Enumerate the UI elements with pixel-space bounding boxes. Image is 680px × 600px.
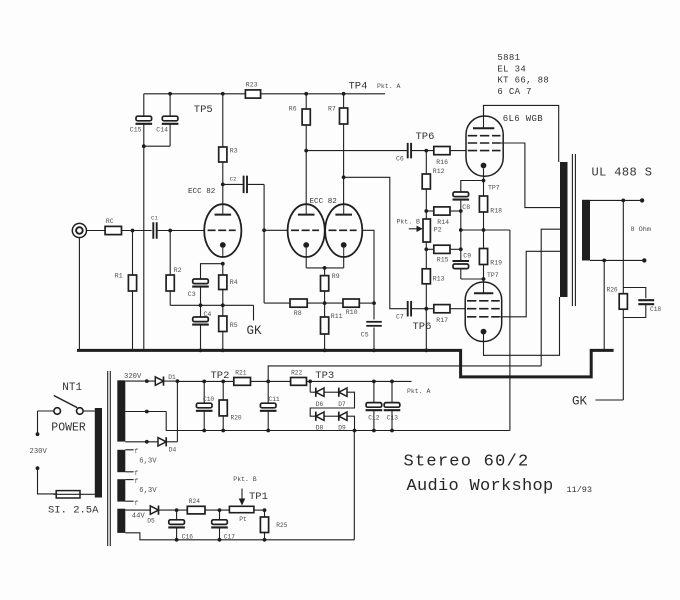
wire bias rail riser xyxy=(353,431,355,540)
resistor R10 xyxy=(343,299,359,307)
svg-text:R25: R25 xyxy=(276,522,287,529)
op-amp V1 triode ECC 82 xyxy=(204,204,241,257)
wire upper screen tap xyxy=(501,143,561,208)
svg-text:TP7: TP7 xyxy=(488,184,500,191)
TP1 wiper arrow xyxy=(241,489,243,502)
op-amp V3 triode ECC 82 xyxy=(325,204,362,257)
node R6 top xyxy=(304,92,308,96)
svg-text:R4: R4 xyxy=(230,279,238,286)
svg-text:EL 34: EL 34 xyxy=(497,64,526,74)
wire GK stub xyxy=(253,305,255,320)
svg-text:C13: C13 xyxy=(387,414,398,421)
svg-text:GK: GK xyxy=(247,324,263,338)
resistor R26 xyxy=(619,294,627,310)
resistor R17 xyxy=(434,305,450,313)
wire mains left xyxy=(38,410,54,412)
capacitor C5 xyxy=(373,303,375,319)
svg-text:GK: GK xyxy=(572,395,588,409)
svg-text:D6: D6 xyxy=(316,401,324,408)
node C2 junction xyxy=(221,183,225,187)
wire phase splitter row xyxy=(264,302,290,304)
transistor U2 output tube lower 6L6 xyxy=(465,282,502,342)
wire upper anode to primary top xyxy=(484,105,559,162)
potentiometer P2 xyxy=(425,211,427,219)
wire jack to RC xyxy=(87,230,106,232)
transformer core xyxy=(571,154,573,306)
svg-text:5881: 5881 xyxy=(497,53,520,63)
wire switch to primary xyxy=(83,410,95,412)
P2 wiper arrow xyxy=(409,228,419,230)
transformer NT1 heater winding 1 xyxy=(117,450,125,472)
capacitor C13 xyxy=(390,380,394,384)
resistor R15 xyxy=(426,248,434,250)
svg-text:TP4: TP4 xyxy=(349,80,368,92)
transformer UL 488 S primary xyxy=(560,162,568,297)
svg-text:R16: R16 xyxy=(436,159,448,166)
wire secondary bottom xyxy=(590,259,644,261)
node R1 tap xyxy=(131,229,135,233)
node V2 grid tap xyxy=(262,228,266,232)
svg-text:R13: R13 xyxy=(433,275,445,282)
node R3 top xyxy=(221,92,225,96)
svg-text:R21: R21 xyxy=(235,369,246,376)
svg-text:C8: C8 xyxy=(462,204,470,211)
resistor R6 xyxy=(305,94,307,109)
svg-text:Pkt. A: Pkt. A xyxy=(407,388,431,395)
svg-text:C5: C5 xyxy=(361,332,369,339)
svg-text:R5: R5 xyxy=(230,322,238,329)
svg-text:R8: R8 xyxy=(294,310,302,317)
resistor R19 xyxy=(483,230,485,249)
transformer secondary xyxy=(582,200,590,261)
svg-text:230V: 230V xyxy=(30,448,48,456)
resistor R3 xyxy=(222,94,224,147)
wire V3 grid from R10/C5 node xyxy=(362,230,374,303)
resistor R14 xyxy=(426,210,434,212)
svg-text:C4: C4 xyxy=(204,311,212,318)
wire lower anode to primary bottom xyxy=(484,297,560,355)
wire TP5 decoupling down to ground bus xyxy=(143,146,145,349)
svg-text:D7: D7 xyxy=(338,401,346,408)
resistor R7 xyxy=(343,94,345,108)
svg-text:TP2: TP2 xyxy=(211,370,230,382)
node C6/R16 junction xyxy=(424,149,428,153)
svg-text:P2: P2 xyxy=(434,227,442,234)
svg-text:6 CA 7: 6 CA 7 xyxy=(497,87,532,97)
svg-text:R6: R6 xyxy=(289,106,297,113)
node C14/C15 bottom junction xyxy=(142,144,146,148)
svg-text:Pkt. B: Pkt. B xyxy=(233,476,257,483)
svg-text:TP7: TP7 xyxy=(487,272,499,279)
resistor R5 xyxy=(222,305,224,316)
switch POWER xyxy=(54,408,61,415)
svg-text:320V: 320V xyxy=(124,373,142,381)
resistor R25 xyxy=(264,510,266,517)
resistor R23 xyxy=(245,90,260,98)
transformer NT1 primary xyxy=(95,408,102,498)
resistor R16 xyxy=(434,147,450,155)
resistor R21 xyxy=(234,378,251,386)
resistor R9 xyxy=(324,268,326,276)
node V3 anode tap to C7 xyxy=(342,175,346,179)
svg-text:D4: D4 xyxy=(169,446,177,453)
svg-text:C11: C11 xyxy=(269,396,280,403)
svg-text:TP6: TP6 xyxy=(416,131,435,143)
svg-text:POWER: POWER xyxy=(51,422,86,435)
capacitor C12 xyxy=(372,380,376,384)
svg-text:Pkt. B: Pkt. B xyxy=(397,218,421,225)
wire C1 to V1 grid xyxy=(157,230,205,232)
svg-text:C10: C10 xyxy=(203,396,214,403)
wire secondary common to ground bus xyxy=(603,260,605,351)
transformer NT1 HV secondary xyxy=(117,380,125,441)
svg-text:R7: R7 xyxy=(328,106,336,113)
diode D7 xyxy=(338,388,340,397)
svg-text:6,3V: 6,3V xyxy=(139,457,157,465)
wire V2/V3 cathodes join xyxy=(305,257,307,268)
wire 8 ohm tap down to R26 xyxy=(622,200,624,293)
svg-text:f: f xyxy=(134,448,138,455)
capacitor C10 xyxy=(202,380,206,384)
wire HV bottom tap xyxy=(125,441,158,443)
svg-text:R20: R20 xyxy=(231,414,242,421)
wire jack stem to ground bus xyxy=(78,238,80,350)
input jack xyxy=(72,223,86,237)
wire V3 anode to C7 xyxy=(344,177,408,308)
wire HV center tap xyxy=(125,411,166,413)
svg-text:ECC 82: ECC 82 xyxy=(310,198,338,206)
capacitor C15 xyxy=(143,94,145,116)
transformer NT1 bias winding 44V xyxy=(117,509,125,533)
resistor R22 xyxy=(291,378,307,386)
capacitor C14 xyxy=(169,94,171,116)
node R2 tap xyxy=(168,229,172,233)
capacitor C17 xyxy=(219,510,221,520)
svg-text:Pt: Pt xyxy=(239,516,247,523)
capacitor C1 xyxy=(152,222,154,239)
svg-text:ECC 82: ECC 82 xyxy=(188,188,216,196)
svg-text:R26: R26 xyxy=(607,286,618,293)
svg-text:Pkt. A: Pkt. A xyxy=(377,83,401,90)
svg-text:R15: R15 xyxy=(437,256,449,263)
wire HV top tap xyxy=(125,380,155,382)
diode D6 xyxy=(315,388,317,397)
wire V1 cathode junction xyxy=(221,262,225,266)
resistor R12 xyxy=(425,151,427,174)
svg-text:KT 66, 88: KT 66, 88 xyxy=(497,76,549,86)
wire R26 bottom to GK xyxy=(622,309,624,400)
wire B+ rail xyxy=(177,380,233,382)
svg-text:R23: R23 xyxy=(246,82,258,89)
node R14 junction xyxy=(424,209,428,213)
resistor R4 xyxy=(222,264,224,275)
wire secondary top 8 ohm xyxy=(590,199,642,201)
wire C2 output down to V2 grid / R8 xyxy=(263,184,265,303)
capacitor C11 xyxy=(266,380,270,384)
wire B+ center tap xyxy=(541,229,560,366)
resistor R13 xyxy=(425,249,427,268)
svg-text:C14: C14 xyxy=(156,127,168,134)
svg-text:TP3: TP3 xyxy=(315,370,334,382)
svg-text:R19: R19 xyxy=(490,259,502,266)
capacitor C6 xyxy=(407,143,409,159)
diode D8 xyxy=(315,412,317,421)
svg-text:RC: RC xyxy=(106,218,114,225)
wire TP4 stub xyxy=(344,93,385,95)
svg-text:UL 488 S: UL 488 S xyxy=(592,165,653,179)
capacitor C9 xyxy=(460,230,462,261)
svg-text:TP1: TP1 xyxy=(249,491,268,503)
svg-text:R1: R1 xyxy=(115,273,123,280)
svg-text:11/93: 11/93 xyxy=(567,485,593,495)
svg-text:f: f xyxy=(134,500,138,507)
svg-text:R22: R22 xyxy=(291,369,302,376)
resistor R11 xyxy=(324,303,326,317)
svg-text:R12: R12 xyxy=(433,168,445,175)
svg-text:C17: C17 xyxy=(224,533,235,540)
resistor RC xyxy=(105,226,121,234)
node R15 junction xyxy=(424,247,428,251)
svg-text:R11: R11 xyxy=(331,313,343,320)
capacitor C16 xyxy=(176,510,178,520)
svg-text:C2: C2 xyxy=(230,175,237,182)
wire B+ feed line xyxy=(268,366,541,382)
svg-text:6,3V: 6,3V xyxy=(139,487,157,495)
fuse SI 2.5A xyxy=(56,491,80,498)
svg-text:R14: R14 xyxy=(437,219,449,226)
svg-text:C18: C18 xyxy=(650,306,661,313)
svg-text:C6: C6 xyxy=(396,155,404,162)
diode D4 xyxy=(158,438,166,446)
svg-text:D1: D1 xyxy=(168,374,176,381)
capacitor C3 xyxy=(201,264,223,279)
transformer NT1 core xyxy=(107,371,109,546)
wire bias winding return xyxy=(125,533,354,540)
svg-text:f: f xyxy=(134,470,138,477)
wire bias diode string xyxy=(309,381,311,392)
node TP7 lower xyxy=(482,277,486,281)
resistor R2 xyxy=(169,231,171,276)
node R7 top / TP4 xyxy=(342,92,346,96)
diode D5 xyxy=(150,506,158,514)
svg-text:C9: C9 xyxy=(463,253,471,260)
svg-text:C16: C16 xyxy=(182,533,193,540)
svg-text:C15: C15 xyxy=(130,127,142,134)
wire heavy ground bus xyxy=(77,350,614,377)
node TP3 junction xyxy=(308,380,312,384)
wire RC to C1 xyxy=(122,230,152,232)
capacitor C2 xyxy=(223,183,244,185)
svg-text:TP6: TP6 xyxy=(413,321,432,333)
capacitor C4 xyxy=(200,305,202,317)
svg-text:44V: 44V xyxy=(132,513,146,521)
svg-text:TP5: TP5 xyxy=(194,104,213,116)
node TP5 rail junction C14 xyxy=(168,92,172,96)
svg-text:SI. 2.5A: SI. 2.5A xyxy=(48,504,99,516)
capacitor C18 xyxy=(623,288,646,299)
svg-text:C1: C1 xyxy=(151,214,158,221)
wire cathode feedback row xyxy=(170,304,253,306)
svg-text:C3: C3 xyxy=(188,291,196,298)
svg-text:R10: R10 xyxy=(346,309,358,316)
resistor R8 xyxy=(290,299,307,307)
resistor R18 xyxy=(483,181,485,197)
transformer NT1 heater winding 2 xyxy=(117,479,125,501)
node cathode network mid row xyxy=(459,209,463,213)
svg-text:C12: C12 xyxy=(368,414,379,421)
node B+ rectifier junction xyxy=(176,379,180,383)
resistor R20 xyxy=(221,380,225,384)
capacitor C7 xyxy=(407,301,409,317)
svg-text:R17: R17 xyxy=(436,317,448,324)
wire V2 anode to C6 xyxy=(306,150,407,152)
op-amp V2 triode ECC 82 xyxy=(288,204,325,257)
node TP7 upper xyxy=(482,179,486,183)
diode D1 xyxy=(155,377,163,385)
diode D9 xyxy=(338,412,340,421)
wire lower screen tap xyxy=(500,251,560,316)
resistor R24 xyxy=(187,506,205,514)
svg-text:NT1: NT1 xyxy=(62,382,82,394)
svg-text:R9: R9 xyxy=(332,273,340,280)
wire top supply rail xyxy=(144,93,246,95)
svg-text:f: f xyxy=(134,478,138,485)
svg-text:R24: R24 xyxy=(189,498,200,505)
svg-text:Audio Workshop: Audio Workshop xyxy=(407,477,554,496)
svg-text:6L6 WGB: 6L6 WGB xyxy=(503,114,544,124)
svg-text:R18: R18 xyxy=(490,207,502,214)
capacitor C8 xyxy=(461,181,484,193)
wire bias return rail xyxy=(204,430,510,432)
svg-text:8 Ohm: 8 Ohm xyxy=(631,226,651,234)
resistor R1 xyxy=(132,231,134,276)
wire mid row to bias rail riser xyxy=(461,229,510,231)
node V2 anode tap to C6 xyxy=(304,149,308,153)
svg-text:R2: R2 xyxy=(174,267,182,274)
svg-text:C7: C7 xyxy=(396,314,404,321)
transistor U1 output tube upper 6L6 xyxy=(466,116,503,176)
svg-text:R3: R3 xyxy=(230,148,238,155)
svg-text:D5: D5 xyxy=(147,517,155,524)
potentiometer Pt TP1 xyxy=(229,506,254,512)
node C7/R17 junction xyxy=(424,307,428,311)
svg-text:Stereo 60/2: Stereo 60/2 xyxy=(404,452,530,471)
